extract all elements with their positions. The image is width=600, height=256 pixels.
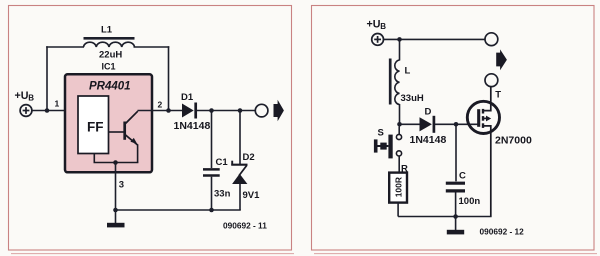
source lead (484, 126, 491, 217)
node switch/diode junction (397, 122, 402, 127)
svg-text:22uH: 22uH (99, 50, 122, 61)
inductor L1 core bar (84, 37, 135, 40)
zener D2 (239, 111, 241, 165)
collector diagonal (126, 111, 138, 123)
scan artifact line below left panel (11, 253, 294, 255)
svg-text:100R: 100R (394, 177, 404, 197)
switch S (398, 127, 400, 135)
svg-text:2: 2 (158, 100, 163, 110)
node output terminal (255, 104, 268, 117)
switch actuator bar (388, 135, 392, 159)
FF block (78, 96, 109, 154)
switch plunger (374, 139, 378, 152)
panel frame left (9, 6, 292, 251)
transistor Q inside IC1 (94, 111, 139, 162)
diode D (420, 117, 432, 131)
base bar (123, 122, 126, 140)
inductor L core bar (389, 59, 392, 105)
body lead (484, 117, 488, 119)
svg-text:R: R (401, 164, 408, 175)
svg-text:+U: +U (367, 19, 381, 31)
svg-text:33uH: 33uH (401, 93, 424, 104)
mosfet T 2N7000 (467, 101, 499, 133)
svg-text:IC1: IC1 (102, 62, 116, 72)
svg-text:9V1: 9V1 (243, 190, 261, 201)
node output terminal top (485, 33, 498, 46)
node ground junction (453, 214, 458, 219)
base wire (109, 131, 125, 133)
wire +UB node down to coil (399, 39, 401, 60)
svg-text:33n: 33n (214, 189, 231, 200)
emitter diagonal (125, 135, 137, 145)
capacitor C (455, 124, 457, 181)
node pin3 bottom junction (113, 208, 118, 213)
svg-text:FF: FF (87, 120, 104, 135)
svg-text:+U: +U (15, 90, 29, 102)
svg-text:100n: 100n (459, 196, 481, 207)
node pin3 junction inside IC (113, 160, 118, 165)
wire node to D (400, 123, 421, 125)
wire bottom rail (116, 209, 241, 211)
wire pin3 down through IC border (115, 163, 117, 211)
svg-text:3: 3 (119, 180, 124, 191)
svg-text:PR4401: PR4401 (89, 81, 131, 93)
wire +UB to pin1 (32, 110, 65, 112)
output arrow (274, 100, 284, 122)
wire D1 to output (197, 110, 255, 112)
channel dash mid (482, 116, 484, 121)
node junction after pin2 (166, 108, 171, 113)
wire top rail left segment (46, 46, 84, 48)
svg-text:D1: D1 (181, 92, 194, 103)
channel dash bottom (482, 123, 484, 128)
inductor L coil (vertical) (395, 60, 400, 105)
output arrow right panel (496, 49, 507, 70)
svg-text:L1: L1 (101, 25, 113, 36)
node gate/C junction (454, 122, 459, 127)
node C1 bottom junction (209, 208, 214, 213)
scan artifact line below right panel (314, 253, 597, 255)
node junction at inductor top (397, 37, 402, 42)
wire bottom rail right panel (398, 216, 492, 218)
ground (115, 210, 117, 223)
svg-text:1N4148: 1N4148 (174, 120, 211, 132)
wire D to gate (435, 123, 478, 125)
svg-text:B: B (28, 94, 34, 103)
wire vertical down to D1 node (168, 46, 170, 110)
svg-text:B: B (380, 22, 386, 31)
wire collector to pin2 out (138, 110, 183, 112)
wire coil to node (399, 104, 401, 124)
drain lead (484, 86, 491, 110)
svg-text:090692 - 11: 090692 - 11 (223, 221, 267, 231)
wire top rail right segment (134, 46, 170, 48)
svg-text:1N4148: 1N4148 (410, 134, 447, 146)
svg-text:C1: C1 (216, 157, 229, 168)
svg-text:C: C (459, 171, 466, 182)
ground right (455, 217, 457, 231)
node D2 junction (238, 108, 243, 113)
svg-text:L: L (405, 66, 411, 77)
node +UB terminal (right) (372, 34, 384, 46)
svg-text:090692 - 12: 090692 - 12 (480, 227, 525, 237)
wire vertical up from input node (46, 46, 48, 110)
wire R to rail (397, 203, 399, 217)
emitter vertical down (137, 144, 139, 162)
capacitor C1 (211, 111, 213, 169)
svg-text:D2: D2 (243, 152, 255, 163)
wire top rail right panel (384, 38, 486, 40)
svg-text:2N7000: 2N7000 (495, 135, 532, 147)
channel dash top (482, 109, 484, 114)
gate bar (477, 109, 480, 127)
svg-text:T: T (495, 90, 501, 101)
svg-text:1: 1 (55, 99, 60, 109)
op IC1 box PR4401 (65, 74, 152, 172)
node C1 junction (209, 108, 214, 113)
inductor L1 coil (84, 42, 135, 47)
resistor R (389, 173, 407, 203)
node junction dot at input (45, 108, 50, 113)
panel frame right (312, 6, 595, 251)
svg-text:S: S (378, 128, 384, 139)
wire FF bottom to emitter rail (93, 154, 95, 163)
emitter arrowhead (130, 138, 137, 144)
emitter bottom wire (94, 162, 139, 164)
diode D1 (182, 104, 194, 118)
node output terminal lower (485, 74, 498, 87)
node +UB terminal (left) (20, 105, 32, 117)
body arrowhead (486, 116, 491, 122)
svg-text:D: D (425, 107, 432, 118)
